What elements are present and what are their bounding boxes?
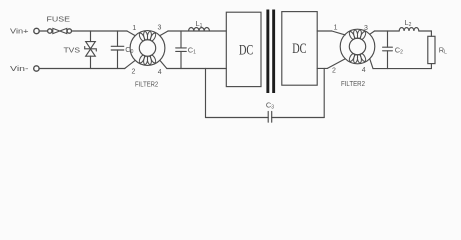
svg-text:FUSE: FUSE [47, 14, 71, 23]
svg-text:FILTER2: FILTER2 [341, 79, 365, 88]
svg-text:2: 2 [332, 68, 336, 75]
svg-text:FILTER2: FILTER2 [135, 80, 158, 89]
svg-text:TVS: TVS [64, 45, 81, 54]
svg-text:C2: C2 [395, 45, 403, 55]
svg-text:3: 3 [158, 25, 162, 32]
svg-text:L1: L1 [196, 19, 203, 29]
svg-text:4: 4 [158, 69, 162, 76]
svg-text:3: 3 [364, 25, 368, 32]
svg-text:1: 1 [334, 24, 338, 31]
svg-text:C3: C3 [266, 101, 274, 111]
svg-text:C0: C0 [125, 45, 133, 55]
svg-text:L2: L2 [405, 18, 412, 28]
svg-text:Vin-: Vin- [10, 64, 29, 73]
svg-text:RL: RL [439, 45, 447, 55]
svg-text:2: 2 [132, 68, 136, 75]
svg-text:DC: DC [239, 42, 253, 58]
svg-text:4: 4 [362, 67, 366, 74]
svg-text:Vin+: Vin+ [10, 27, 29, 36]
svg-text:DC: DC [292, 41, 306, 57]
svg-text:C1: C1 [188, 46, 196, 56]
svg-text:1: 1 [132, 25, 136, 32]
